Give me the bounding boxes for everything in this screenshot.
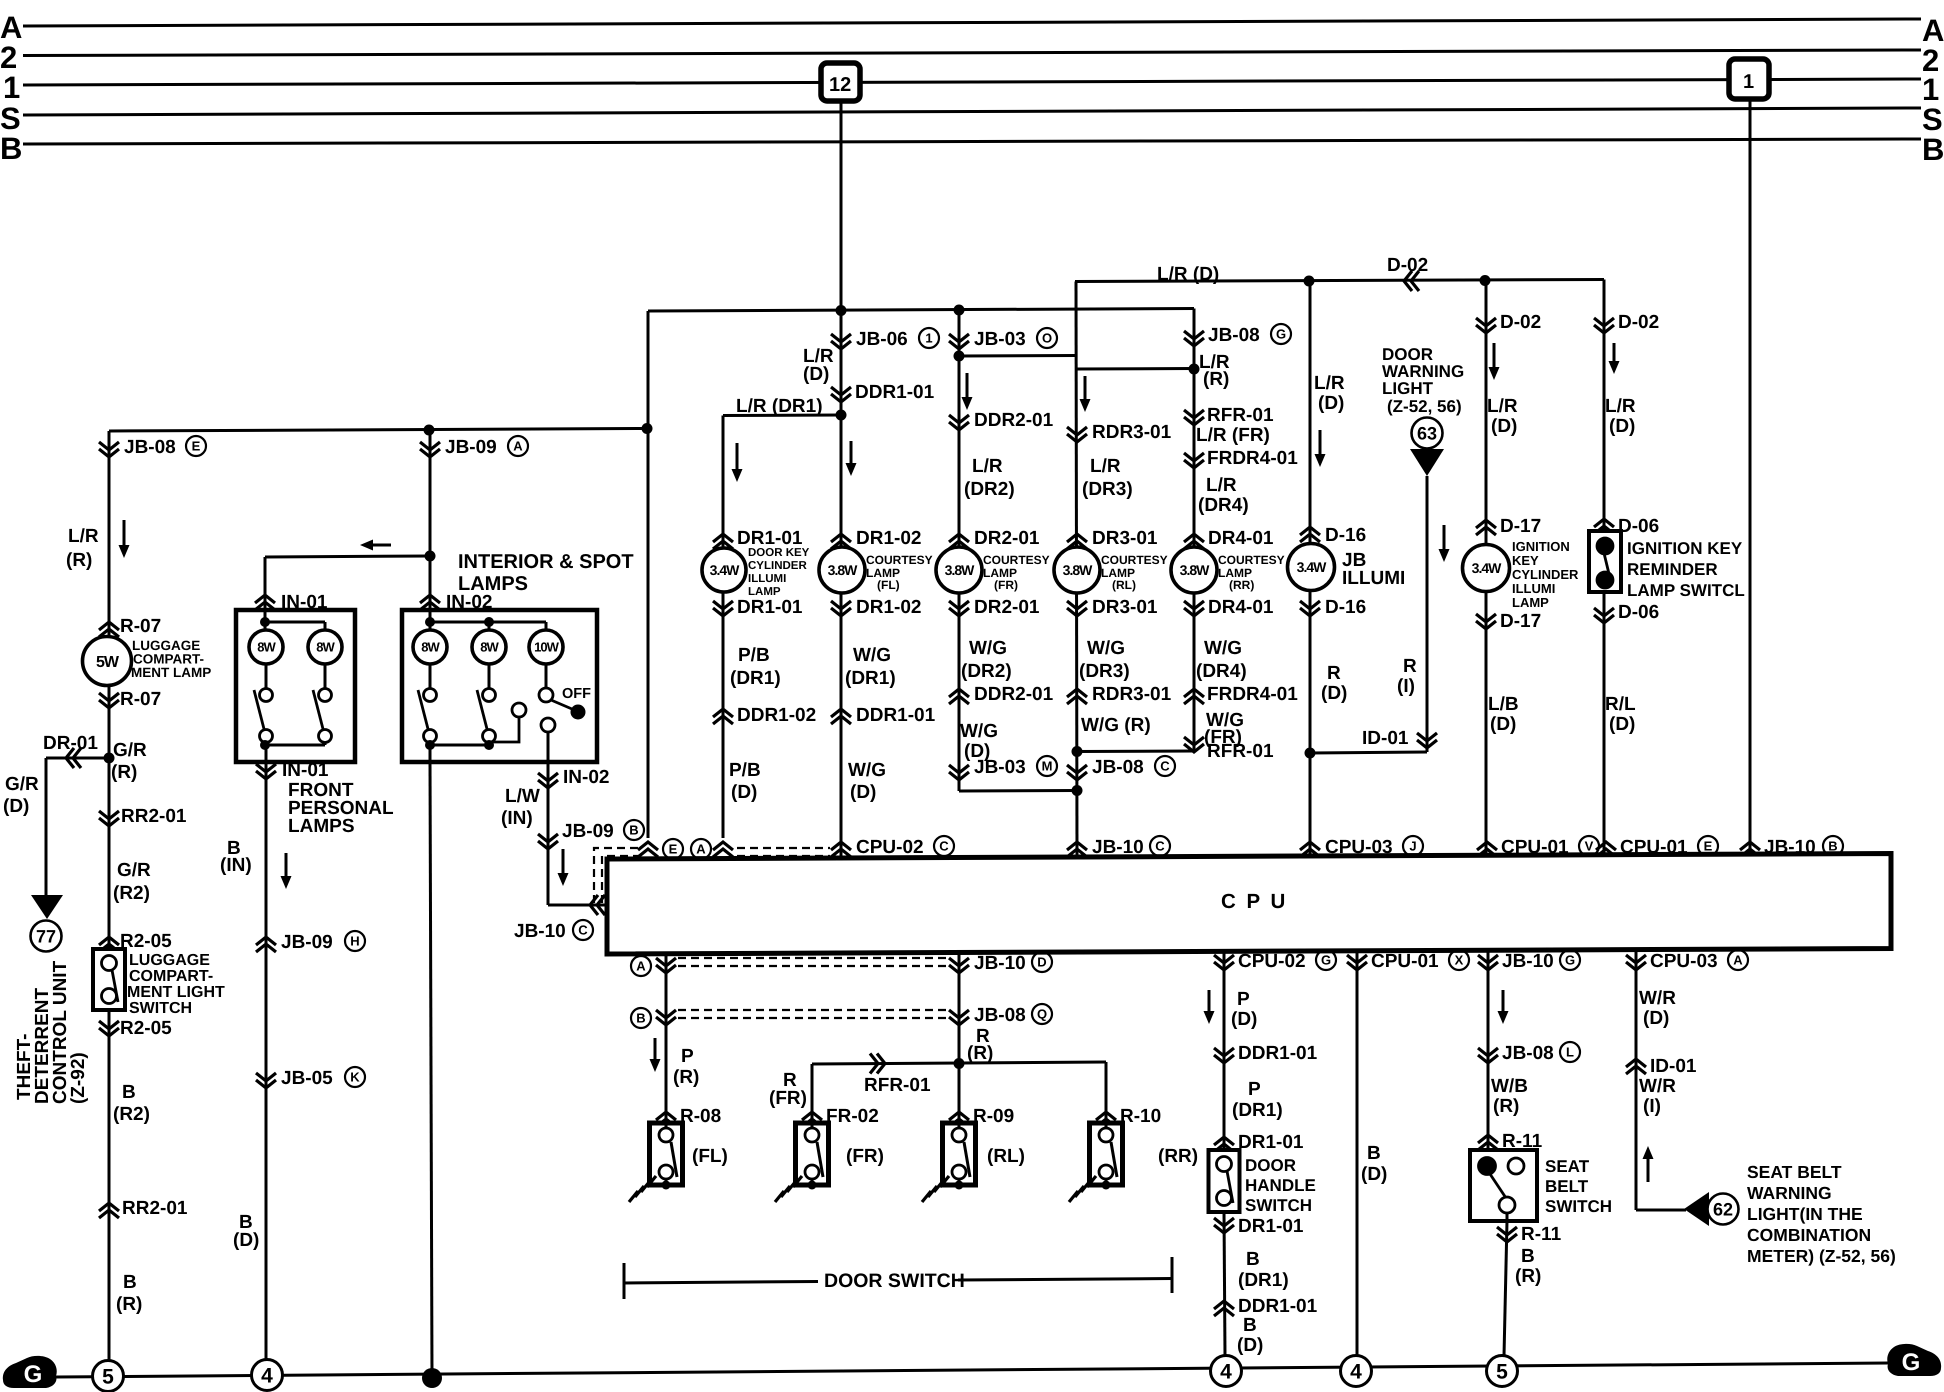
svg-text:D-16: D-16 (1325, 525, 1366, 546)
svg-text:D-02: D-02 (1387, 255, 1428, 276)
svg-text:DOOR: DOOR (1245, 1156, 1296, 1175)
svg-text:JB-09: JB-09 (562, 821, 614, 842)
arrow down seat belt column (1502, 990, 1505, 1020)
svg-text:RDR3-01: RDR3-01 (1092, 684, 1172, 705)
svg-text:LIGHT(IN THE: LIGHT(IN THE (1747, 1204, 1863, 1224)
svg-text:DR2-01: DR2-01 (974, 528, 1040, 549)
svg-text:DDR1-01: DDR1-01 (1238, 1296, 1318, 1317)
svg-text:L/B: L/B (1488, 694, 1519, 715)
connector D-17 lower (1476, 614, 1496, 622)
connector JB-09(A) (420, 442, 440, 450)
svg-text:(RL): (RL) (987, 1146, 1025, 1167)
svg-text:R-07: R-07 (120, 616, 161, 637)
svg-text:B: B (1246, 1249, 1260, 1270)
svg-text:SEAT BELT: SEAT BELT (1747, 1162, 1842, 1182)
junction dot D-02 line at D-17 col (1480, 275, 1491, 286)
arrow down JB-09B column (562, 849, 565, 882)
switch IN-01 right (324, 664, 327, 689)
svg-text:JB-06: JB-06 (856, 329, 908, 350)
bulb 10W IN-02 right (529, 630, 563, 664)
wire door switch horizontal (812, 1062, 1106, 1064)
arrow down left column (123, 520, 126, 554)
svg-text:LIGHT: LIGHT (1382, 379, 1434, 398)
junction dot at x=648 corner (642, 423, 653, 434)
svg-text:DDR1-01: DDR1-01 (1238, 1043, 1318, 1064)
svg-text:E: E (1704, 839, 1713, 854)
arrow down FR column (966, 373, 969, 406)
circled 62 seat belt warning light (1708, 1194, 1739, 1225)
svg-text:P/B: P/B (738, 645, 770, 666)
connector JB-03(O) (949, 334, 969, 342)
circled 4 door handle (1211, 1356, 1242, 1387)
connector JB-10(C) into CPU (1067, 842, 1087, 850)
wire IN-01 column to bus (265, 762, 268, 1361)
svg-text:L/R: L/R (68, 526, 99, 547)
svg-text:4: 4 (1350, 1360, 1362, 1383)
svg-text:(Z-92): (Z-92) (68, 1052, 89, 1104)
door switch bracket (623, 1263, 626, 1299)
svg-text:COMPART-: COMPART- (129, 968, 213, 985)
svg-text:(D): (D) (1490, 714, 1516, 735)
connector JB-06(1) (831, 334, 851, 342)
junction dot JB-03 tee (954, 351, 965, 362)
svg-text:DR4-01: DR4-01 (1208, 597, 1274, 618)
connector IN-01 upper (255, 595, 275, 603)
svg-text:3.4W: 3.4W (1472, 560, 1502, 576)
svg-text:1: 1 (925, 331, 932, 346)
svg-text:DR3-01: DR3-01 (1092, 528, 1158, 549)
connector DR1-01 lower (713, 601, 733, 609)
svg-text:E: E (669, 842, 678, 857)
connector DR2-01 lower (949, 601, 969, 609)
svg-text:RFR-01: RFR-01 (864, 1075, 931, 1096)
junction dot DR-01 tee (104, 753, 115, 764)
svg-text:(DR1): (DR1) (730, 668, 781, 689)
circled A connector label (691, 839, 711, 859)
connector D-16 lower (1300, 601, 1320, 609)
svg-text:IN-01: IN-01 (282, 760, 329, 781)
svg-text:(D): (D) (1318, 393, 1344, 414)
svg-text:B: B (1521, 1246, 1535, 1267)
svg-text:1: 1 (3, 70, 20, 105)
lamp 3.8W courtesy lamp RL (1054, 547, 1100, 593)
svg-text:3.8W: 3.8W (1063, 562, 1093, 578)
svg-text:FRDR4-01: FRDR4-01 (1207, 684, 1298, 705)
off switch IN-02 (545, 664, 548, 689)
connector DR4-01 lower (1184, 601, 1204, 609)
svg-text:(DR4): (DR4) (1196, 661, 1247, 682)
svg-text:DDR1-01: DDR1-01 (855, 382, 935, 403)
svg-text:G: G (1902, 1349, 1921, 1376)
svg-text:FRDR4-01: FRDR4-01 (1207, 448, 1298, 469)
svg-text:62: 62 (1713, 1199, 1733, 1219)
svg-text:C: C (1160, 759, 1170, 774)
svg-text:G: G (1276, 327, 1286, 342)
svg-text:R2-05: R2-05 (120, 931, 172, 952)
connector IN-01 lower (256, 764, 276, 772)
wire IN-01 bottom join (265, 744, 325, 747)
wire FR merge into RL (959, 789, 1077, 793)
svg-text:ID-01: ID-01 (1362, 728, 1409, 749)
svg-text:C: C (1155, 839, 1165, 854)
svg-text:RFR-01: RFR-01 (1207, 741, 1274, 762)
connector FR-02 (802, 1112, 822, 1120)
svg-text:5: 5 (1496, 1360, 1508, 1383)
svg-text:L/W: L/W (505, 786, 540, 807)
svg-text:DDR1-01: DDR1-01 (856, 705, 936, 726)
svg-text:R-10: R-10 (1120, 1106, 1161, 1127)
wire below CPU x=666 (665, 954, 668, 1123)
svg-text:(DR2): (DR2) (964, 479, 1015, 500)
svg-text:D-06: D-06 (1618, 516, 1659, 537)
svg-text:ILLUMI: ILLUMI (1512, 581, 1555, 596)
arrow down FL column (850, 441, 853, 472)
svg-text:J: J (1409, 839, 1416, 854)
wire L/R (D) top horizontal (1075, 280, 1604, 282)
svg-text:L/R: L/R (1314, 373, 1345, 394)
svg-text:JB-10: JB-10 (514, 921, 566, 942)
svg-text:(D): (D) (1643, 1008, 1669, 1029)
switch IN-02 middle (488, 664, 491, 689)
svg-text:Q: Q (1037, 1007, 1047, 1022)
wire drop FR-02 (811, 1064, 814, 1123)
svg-text:C: C (939, 839, 949, 854)
svg-text:(FL): (FL) (877, 578, 900, 592)
svg-text:CPU-02: CPU-02 (1238, 951, 1306, 972)
wire D-06 column (1603, 280, 1606, 860)
svg-text:COURTESY: COURTESY (1218, 553, 1285, 567)
svg-text:COMBINATION: COMBINATION (1747, 1225, 1871, 1245)
svg-text:DR2-01: DR2-01 (974, 597, 1040, 618)
svg-text:D: D (1037, 955, 1046, 970)
wire JB-10C horizontal into CPU (548, 904, 607, 907)
svg-text:JB-08: JB-08 (1208, 325, 1260, 346)
svg-text:G: G (1321, 953, 1331, 968)
circled 4 left bus (252, 1360, 283, 1391)
svg-text:COURTESY: COURTESY (866, 553, 933, 567)
junction dot IN-01 top (260, 617, 270, 627)
connector CPU-03(A) (1626, 955, 1646, 963)
connector box 1 on bus line 1 (1729, 59, 1769, 99)
door switch RL (943, 1123, 976, 1185)
wire IN-02 bottom join (430, 744, 489, 747)
junction dot L/R DR1 tee (836, 410, 847, 421)
connector CPU-01(X) (1347, 955, 1367, 963)
svg-text:(D): (D) (1231, 1009, 1257, 1030)
svg-text:L/R: L/R (972, 456, 1003, 477)
svg-text:COURTESY: COURTESY (983, 553, 1050, 567)
ground symbol left (3, 1356, 57, 1388)
svg-text:(IN): (IN) (220, 855, 252, 876)
svg-text:B: B (123, 1272, 137, 1293)
wire seat belt column upper (1487, 951, 1490, 1151)
arrow to theft-deterrent control unit (31, 895, 63, 919)
junction dots IN-02 top (425, 617, 435, 627)
svg-text:D-17: D-17 (1500, 611, 1541, 632)
connector JB-08(L) (1478, 1048, 1498, 1056)
connector R-07 upper (99, 622, 119, 630)
wire tee to RL column y=355 (959, 354, 1076, 358)
svg-text:W/G (R): W/G (R) (1081, 715, 1151, 736)
svg-text:(R): (R) (66, 550, 92, 571)
svg-text:LAMPS: LAMPS (288, 816, 355, 837)
connector box 12 on bus line 1 (821, 63, 860, 101)
connector FRDR4-01 upper (1184, 453, 1204, 461)
svg-text:(DR1): (DR1) (1238, 1270, 1289, 1291)
svg-text:L: L (1566, 1045, 1574, 1060)
svg-text:L/R (D): L/R (D) (1157, 264, 1219, 285)
svg-text:4: 4 (261, 1364, 273, 1387)
wire D-17 column (1485, 281, 1488, 860)
svg-text:P: P (1237, 989, 1250, 1010)
wire left column x=109 (108, 431, 111, 1362)
svg-text:JB-05: JB-05 (281, 1068, 333, 1089)
connector JB-03(M) (949, 765, 969, 773)
svg-text:77: 77 (36, 926, 56, 946)
connector R2-05 lower (99, 1021, 119, 1029)
junction dot at JB-09A tee (424, 425, 435, 436)
svg-text:(D): (D) (731, 782, 757, 803)
svg-text:(D): (D) (1491, 416, 1517, 437)
wire to seat belt warning light (1636, 1209, 1686, 1212)
svg-text:(D): (D) (3, 796, 29, 817)
bus line 1 (23, 79, 1921, 85)
svg-text:JB-08: JB-08 (1502, 1043, 1554, 1064)
svg-text:(FR): (FR) (769, 1088, 807, 1109)
junction dot IN-01 bottom (260, 740, 270, 750)
ground symbol right (1887, 1344, 1941, 1376)
svg-text:(R): (R) (673, 1067, 699, 1088)
svg-text:JB-08: JB-08 (1092, 757, 1144, 778)
svg-text:(DR1): (DR1) (1232, 1100, 1283, 1121)
bus line 2 (23, 50, 1921, 56)
connector R-07 lower (99, 693, 119, 701)
svg-text:8W: 8W (316, 640, 335, 655)
connector R-08 (656, 1112, 676, 1120)
svg-text:CYLINDER: CYLINDER (748, 560, 807, 572)
svg-text:8W: 8W (257, 640, 276, 655)
connector D-02 (D-06 col) (1594, 318, 1614, 326)
svg-text:12: 12 (829, 74, 851, 96)
svg-text:M: M (1042, 759, 1053, 774)
svg-text:A: A (513, 439, 523, 454)
lamp 3.4W door key cylinder illumi (702, 548, 746, 592)
wire below CPU x=959 (958, 953, 961, 1123)
wire IN-01 drop (264, 557, 267, 610)
svg-text:D-02: D-02 (1618, 312, 1659, 333)
connector D-06 lower (1594, 608, 1614, 616)
svg-text:IGNITION: IGNITION (1512, 539, 1570, 554)
ignition key reminder lamp switch (1589, 531, 1621, 592)
extra contact IN-02 (512, 703, 526, 717)
svg-text:(FL): (FL) (692, 1146, 728, 1167)
door switch RR (1090, 1123, 1123, 1185)
interior & spot lamps box (402, 610, 597, 762)
connector JB-10C chevron (590, 895, 598, 915)
wire RR merge horizontal (1077, 750, 1194, 754)
svg-text:(D): (D) (233, 1230, 259, 1251)
svg-text:JB-10: JB-10 (1502, 951, 1554, 972)
svg-text:JB-09: JB-09 (445, 437, 497, 458)
svg-text:L/R: L/R (1090, 456, 1121, 477)
connector JB-08(C) (1067, 765, 1087, 773)
connector DDR2-01 lower (949, 689, 969, 697)
svg-text:V: V (1585, 839, 1594, 854)
svg-text:G/R: G/R (117, 860, 151, 881)
dashed link B to JB-08Q (678, 1010, 946, 1018)
svg-text:P/B: P/B (729, 760, 761, 781)
svg-text:LAMP SWITCL: LAMP SWITCL (1627, 581, 1745, 600)
connector IN-02 upper (420, 595, 440, 603)
bus line S (23, 108, 1921, 115)
connector DDR1-01 mid (831, 709, 851, 717)
wire tee RR to RL y=368 (1076, 367, 1194, 371)
svg-text:R2-05: R2-05 (120, 1018, 172, 1039)
junction dot at bus (422, 1368, 442, 1388)
lamp 3.4W ignition key cylinder illumi (1463, 545, 1510, 592)
switch IN-01 left (265, 664, 268, 689)
svg-text:(R2): (R2) (113, 1104, 150, 1125)
wire frame left vertical x=648 (647, 311, 650, 838)
ground RL (940, 1176, 949, 1187)
svg-text:(I): (I) (1397, 676, 1415, 697)
junction dot ID-01 tee (1305, 748, 1316, 759)
CPU box (607, 854, 1891, 955)
svg-text:REMINDER: REMINDER (1627, 560, 1718, 579)
lamp 5W luggage compartment lamp (83, 637, 132, 686)
arrow down D-06 column (1613, 343, 1616, 370)
svg-text:INTERIOR & SPOT: INTERIOR & SPOT (458, 551, 634, 573)
svg-text:BELT: BELT (1545, 1177, 1589, 1196)
svg-text:FR-02: FR-02 (826, 1106, 879, 1127)
connector JB-08(E) (99, 442, 119, 450)
bus line A (23, 19, 1921, 26)
svg-text:DR1-01: DR1-01 (737, 528, 803, 549)
svg-text:JB-03: JB-03 (974, 329, 1026, 350)
connector D-02 chevron on horizontal (1404, 271, 1412, 291)
connector DR4-01 upper (1184, 534, 1204, 542)
svg-text:C P U: C P U (1221, 890, 1288, 913)
svg-text:R/L: R/L (1605, 694, 1636, 715)
svg-text:ILLUMI: ILLUMI (748, 573, 786, 585)
junction dots IN-02 bottom (425, 740, 435, 750)
svg-text:LUGGAGE: LUGGAGE (129, 952, 210, 969)
svg-text:R: R (1403, 656, 1417, 677)
svg-text:(R): (R) (1203, 369, 1229, 390)
svg-text:G: G (24, 1361, 43, 1388)
wire IN-02 column to bus (430, 762, 432, 1378)
connector (E) into CPU (638, 842, 658, 850)
front personal lamps box (236, 610, 355, 762)
wire top frame horizontal L/R (648, 309, 1194, 312)
svg-text:JB-08: JB-08 (124, 437, 176, 458)
ground RR (1087, 1176, 1096, 1187)
svg-text:R: R (1327, 663, 1341, 684)
svg-text:E: E (192, 439, 201, 454)
svg-text:8W: 8W (421, 640, 440, 655)
svg-text:B: B (122, 1082, 136, 1103)
connector ID-01 chevron (1417, 733, 1437, 741)
svg-text:(D): (D) (1361, 1164, 1387, 1185)
svg-text:A: A (696, 842, 706, 857)
svg-text:DR3-01: DR3-01 (1092, 597, 1158, 618)
arrow down R-08 column (654, 1038, 657, 1068)
svg-text:L/R: L/R (1605, 396, 1636, 417)
junction dot IN-02 feed tee (425, 551, 436, 562)
connector (A) below CPU (656, 958, 676, 966)
connector RFR-01 upper (1184, 410, 1204, 418)
svg-text:RFR-01: RFR-01 (1207, 405, 1274, 426)
svg-text:5: 5 (102, 1365, 114, 1388)
junction dot door switch tee (954, 1058, 965, 1069)
wire door warning column (1426, 476, 1429, 752)
lamp 3.8W courtesy lamp FR (936, 547, 982, 593)
connector D-02 (D-17 col) (1476, 318, 1496, 326)
connector DR1-01 door handle upper (1214, 1137, 1234, 1145)
svg-text:(D): (D) (803, 364, 829, 385)
svg-text:IGNITION KEY: IGNITION KEY (1627, 539, 1743, 558)
svg-text:3.8W: 3.8W (945, 562, 975, 578)
connector DR-01 chevron (66, 748, 74, 768)
svg-text:DR1-01: DR1-01 (1238, 1216, 1304, 1237)
bottom bus line (56, 1363, 1889, 1377)
svg-text:JB-10: JB-10 (974, 953, 1026, 974)
svg-text:D-17: D-17 (1500, 516, 1541, 537)
connector RFR-01 on horizontal (877, 1054, 885, 1074)
connector JB-09(B) (538, 834, 558, 842)
wire FR column (958, 310, 961, 791)
svg-text:SWITCH: SWITCH (129, 1000, 192, 1017)
connector (B) below CPU (656, 1010, 676, 1018)
svg-text:G: G (1565, 953, 1575, 968)
svg-text:CPU-02: CPU-02 (856, 837, 924, 858)
svg-text:63: 63 (1417, 423, 1437, 443)
svg-text:(R): (R) (967, 1043, 993, 1064)
svg-text:L/R: L/R (1206, 475, 1237, 496)
svg-text:(R): (R) (111, 762, 137, 783)
svg-text:(D): (D) (1609, 714, 1635, 735)
circled 5 seat belt (1487, 1356, 1518, 1387)
svg-text:(R): (R) (1515, 1266, 1541, 1287)
dashed link JB-10C to E (594, 848, 639, 903)
svg-text:SWITCH: SWITCH (1545, 1197, 1612, 1216)
svg-text:(I): (I) (1643, 1096, 1661, 1117)
switch IN-02 left (429, 664, 432, 689)
svg-text:OFF: OFF (562, 686, 591, 702)
connector JB-05(K) (256, 1073, 276, 1081)
svg-text:G/R: G/R (5, 774, 39, 795)
ground FL (647, 1176, 656, 1187)
svg-text:DR1-01: DR1-01 (737, 597, 803, 618)
wire L/R (DR1) horizontal (723, 414, 841, 418)
junction dot FL top (836, 305, 847, 316)
svg-text:(D): (D) (1609, 416, 1635, 437)
connector DR3-01 upper (1067, 534, 1087, 542)
connector R2-05 upper (99, 937, 119, 945)
bus line B (23, 139, 1921, 144)
svg-text:B: B (1367, 1143, 1381, 1164)
svg-text:(IN): (IN) (501, 808, 533, 829)
svg-text:COURTESY: COURTESY (1101, 553, 1168, 567)
wire DR-01 horizontal (46, 757, 109, 760)
wire ID-01 horizontal (1310, 752, 1427, 753)
svg-text:ILLUMI: ILLUMI (1342, 568, 1405, 589)
connector RDR3-01 upper (1067, 427, 1087, 435)
svg-text:(RR): (RR) (1158, 1146, 1198, 1167)
svg-text:(RL): (RL) (1112, 578, 1136, 592)
svg-text:(D): (D) (1237, 1335, 1263, 1356)
svg-text:D-02: D-02 (1500, 312, 1541, 333)
